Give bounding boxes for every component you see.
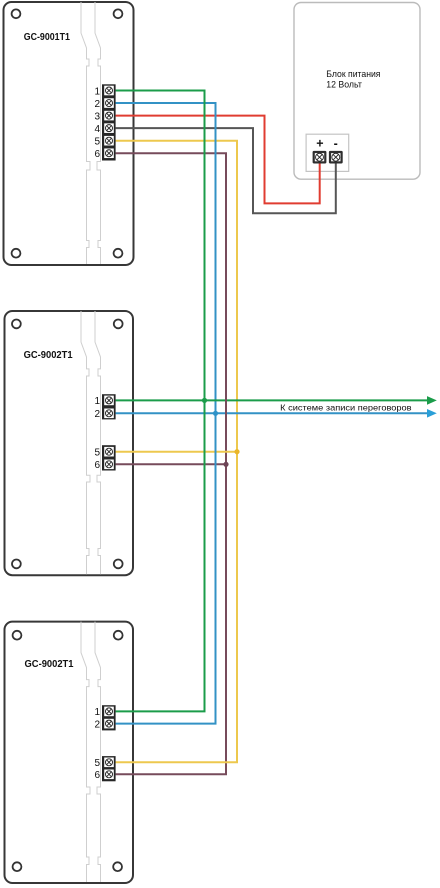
- svg-text:GC-9001T1: GC-9001T1: [24, 31, 70, 43]
- svg-text:2: 2: [94, 99, 100, 110]
- intercom panel GC-9002T1 (second): [5, 311, 134, 575]
- svg-text:-: -: [334, 136, 338, 150]
- terminal GC-9002T1(second) pin6: [94, 460, 113, 472]
- terminal block GC-9002T1(third) pins 5-6: [102, 756, 116, 781]
- svg-text:К системе записи переговоров: К системе записи переговоров: [280, 402, 412, 412]
- junction node green: [202, 398, 207, 403]
- wire dark gray: GC-9001T1 pin4 to PSU - terminal: [116, 128, 336, 213]
- wire yellow branch: GC-9002T1(second) pin5 to trunk: [116, 451, 237, 453]
- wire blue branch: GC-9002T1(second) pin2 to recording system arrow: [116, 412, 428, 414]
- terminal GC-9002T1(second) pin5: [94, 447, 113, 459]
- svg-text:+: +: [316, 136, 323, 150]
- arrowhead blue: [427, 409, 437, 418]
- mounting holes GC-9002T1 (second): [12, 320, 123, 569]
- PSU + terminal: [313, 136, 327, 163]
- mounting holes GC-9001T1: [12, 9, 123, 257]
- terminal GC-9002T1(second) pin2: [94, 409, 113, 421]
- terminal GC-9002T1(third) pin1: [94, 707, 113, 719]
- terminal GC-9001T1 pin3: [94, 111, 113, 123]
- junction node blue: [213, 411, 218, 416]
- terminal GC-9002T1(third) pin6: [94, 770, 113, 782]
- terminal GC-9001T1 pin6: [94, 148, 113, 159]
- svg-text:2: 2: [94, 719, 100, 730]
- junction node maroon: [223, 462, 228, 467]
- PSU terminal box: [306, 134, 349, 171]
- wire red: GC-9001T1 pin3 to PSU + terminal: [116, 116, 320, 204]
- svg-text:12 Вольт: 12 Вольт: [326, 80, 362, 90]
- wire maroon branch: GC-9002T1(second) pin6 to trunk: [116, 463, 226, 465]
- wire yellow: GC-9001T1 pin5 trunk to GC-9002T1(third) pin5: [116, 141, 237, 763]
- svg-text:2: 2: [94, 409, 100, 420]
- terminal GC-9001T1 pin1: [94, 86, 113, 98]
- svg-text:5: 5: [94, 758, 100, 769]
- power supply unit 12V: [294, 3, 420, 180]
- terminal GC-9002T1(third) pin5: [94, 758, 113, 770]
- svg-text:1: 1: [94, 396, 100, 407]
- svg-text:6: 6: [94, 770, 100, 781]
- terminal block GC-9002T1(second) pins 5-6: [102, 445, 116, 470]
- svg-text:GC-9002T1: GC-9002T1: [24, 349, 73, 361]
- terminal block GC-9002T1(second) pins 1-2: [102, 394, 116, 419]
- svg-text:6: 6: [94, 149, 100, 160]
- svg-text:1: 1: [94, 86, 100, 97]
- svg-text:1: 1: [94, 707, 100, 718]
- PSU - terminal: [329, 136, 343, 163]
- intercom panel GC-9002T1 (third): [5, 622, 134, 883]
- cable channel GC-9001T1: [81, 2, 101, 264]
- svg-text:4: 4: [94, 124, 100, 135]
- cable channel GC-9002T1 (second): [81, 311, 101, 574]
- mounting holes GC-9002T1 (third): [13, 631, 123, 871]
- terminal GC-9002T1(third) pin2: [94, 719, 113, 731]
- terminal block GC-9001T1 pins 1-6: [102, 84, 116, 160]
- arrowhead green: [427, 396, 437, 405]
- cable channel GC-9002T1 (third): [81, 622, 101, 882]
- svg-text:6: 6: [94, 460, 100, 471]
- wire green: GC-9001T1 pin1 trunk to GC-9002T1(third) pin1: [116, 91, 205, 712]
- wire maroon: GC-9001T1 pin6 trunk to GC-9002T1(third) pin6: [116, 153, 226, 774]
- wire maroon trunk segment over branch crossings at GC-9002T1(second): [225, 396, 227, 444]
- wire green branch: GC-9002T1(second) pin1 to recording system arrow: [116, 399, 428, 401]
- svg-text:5: 5: [94, 137, 100, 148]
- intercom panel GC-9001T1: [4, 2, 134, 265]
- svg-text:Блок питания: Блок питания: [326, 69, 380, 79]
- terminal GC-9001T1 pin5: [94, 136, 113, 148]
- svg-text:5: 5: [94, 448, 100, 459]
- terminal GC-9001T1 pin4: [94, 123, 113, 135]
- terminal block GC-9002T1(third) pins 1-2: [102, 705, 116, 730]
- svg-text:3: 3: [94, 111, 100, 122]
- junction node yellow: [234, 449, 239, 454]
- svg-text:GC-9002T1: GC-9002T1: [25, 658, 74, 670]
- wire blue: GC-9001T1 pin2 trunk to GC-9002T1(third) pin2: [116, 103, 216, 724]
- terminal GC-9001T1 pin2: [94, 98, 113, 110]
- terminal GC-9002T1(second) pin1: [94, 396, 113, 408]
